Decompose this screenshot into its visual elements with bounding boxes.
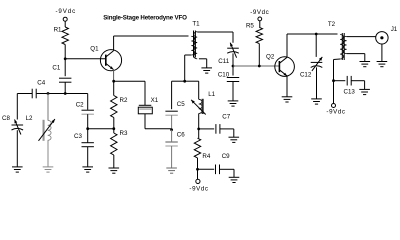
ground (C3) bbox=[82, 167, 93, 172]
trimmer capacitor C8 bbox=[2, 115, 23, 134]
wire bbox=[185, 80, 199, 82]
svg-text:C6: C6 bbox=[177, 132, 185, 139]
svg-text:R3: R3 bbox=[120, 130, 128, 137]
svg-text:C3: C3 bbox=[74, 133, 82, 140]
node C13 junction bbox=[332, 79, 335, 82]
wire bbox=[232, 82, 234, 101]
wire (Q2 emitter) bbox=[286, 76, 288, 97]
ground (C9) bbox=[229, 177, 240, 182]
wire bbox=[351, 80, 364, 82]
wire bbox=[198, 129, 200, 138]
svg-text:-9Vdc: -9Vdc bbox=[55, 8, 76, 15]
wire bbox=[64, 45, 66, 59]
wire (T1 right bottom) bbox=[199, 58, 207, 60]
node C1 bottom junction bbox=[64, 92, 67, 95]
svg-text:J1: J1 bbox=[391, 26, 398, 33]
wire (Q1 emitter) bbox=[113, 70, 115, 82]
wire bbox=[315, 34, 317, 57]
resistor R3 bbox=[111, 130, 128, 155]
ground (C12) bbox=[311, 99, 322, 104]
resistor R4 bbox=[194, 138, 211, 160]
svg-text:R2: R2 bbox=[120, 97, 128, 104]
wire bbox=[197, 169, 199, 179]
wire bbox=[316, 67, 318, 99]
ground (C6) bbox=[166, 168, 177, 173]
wire bbox=[64, 59, 66, 76]
node T1 bottom junction bbox=[183, 80, 186, 83]
power terminal -9Vdc (R1 supply) bbox=[55, 8, 76, 21]
trimmer capacitor C12 bbox=[300, 57, 322, 79]
svg-text:C9: C9 bbox=[222, 153, 230, 160]
node base junction bbox=[64, 57, 67, 60]
wire bbox=[171, 130, 173, 142]
wire (base rail) bbox=[233, 65, 279, 67]
svg-text:R4: R4 bbox=[202, 153, 210, 160]
wire bbox=[65, 93, 88, 95]
svg-text:C13: C13 bbox=[344, 88, 356, 95]
resistor R1 bbox=[54, 27, 69, 45]
wire (Q2 collector) bbox=[286, 34, 288, 57]
ground (C7) bbox=[229, 137, 240, 142]
ground (Q2 emitter) bbox=[282, 97, 293, 102]
power terminal -9Vdc (T2 supply) bbox=[326, 104, 345, 116]
wire bbox=[197, 158, 199, 169]
wire (T2 right top) bbox=[347, 36, 376, 38]
node L1/R4/C7 junction bbox=[197, 127, 200, 130]
svg-text:C4: C4 bbox=[37, 79, 45, 86]
ground (L2) bbox=[43, 167, 54, 172]
node C5/C6 junction bbox=[170, 128, 173, 131]
ground (R3) bbox=[109, 168, 120, 173]
wire bbox=[334, 80, 346, 82]
variable inductor L2 bbox=[26, 115, 55, 141]
capacitor C6 bbox=[165, 132, 185, 147]
svg-text:-9Vdc: -9Vdc bbox=[189, 186, 208, 193]
resistor R5 bbox=[246, 22, 263, 43]
transformer T2 bbox=[328, 21, 347, 60]
wire bbox=[171, 115, 173, 130]
power terminal -9Vdc (R5 supply) bbox=[250, 9, 269, 21]
node C2/C3 junction bbox=[86, 127, 89, 130]
svg-text:C1: C1 bbox=[52, 65, 60, 72]
transistor Q2 bbox=[266, 54, 294, 77]
wire bbox=[144, 114, 146, 129]
capacitor C3 bbox=[74, 133, 94, 147]
capacitor C10 bbox=[218, 71, 239, 81]
wire bbox=[47, 140, 49, 167]
ground (C8) bbox=[12, 167, 23, 172]
svg-text:L2: L2 bbox=[26, 115, 33, 122]
svg-text:C12: C12 bbox=[300, 71, 312, 78]
wire (T2 right bottom) bbox=[347, 53, 365, 55]
svg-text:R1: R1 bbox=[54, 27, 62, 34]
capacitor C5 bbox=[165, 101, 185, 115]
wire bbox=[114, 80, 145, 82]
wire (T1 right top) bbox=[197, 31, 233, 33]
resistor R2 bbox=[111, 96, 128, 118]
wire bbox=[16, 130, 18, 167]
wire bbox=[88, 128, 114, 130]
svg-text:C7: C7 bbox=[222, 114, 230, 121]
ground (T1 secondary) bbox=[201, 68, 212, 73]
wire bbox=[258, 44, 260, 66]
svg-text:R5: R5 bbox=[246, 22, 254, 29]
ground (T2 secondary) bbox=[360, 62, 371, 67]
node L2 top junction bbox=[47, 92, 50, 95]
svg-text:C2: C2 bbox=[76, 102, 84, 109]
capacitor C1 bbox=[52, 65, 71, 83]
capacitor C4 bbox=[32, 79, 46, 98]
svg-text:T1: T1 bbox=[192, 21, 200, 28]
node R2/R3 junction bbox=[112, 127, 115, 130]
trimmer capacitor C11 bbox=[218, 43, 239, 65]
svg-text:-9Vdc: -9Vdc bbox=[326, 108, 345, 115]
capacitor C7 bbox=[216, 114, 231, 134]
node R5 bottom junction bbox=[258, 65, 261, 68]
wire (T2 left bottom) bbox=[334, 58, 341, 61]
wire bbox=[87, 129, 89, 143]
variable inductor L1 bbox=[191, 91, 216, 115]
wire bbox=[220, 168, 235, 170]
svg-text:C10: C10 bbox=[218, 71, 230, 78]
crystal X1 bbox=[138, 97, 158, 114]
wire bbox=[47, 94, 49, 121]
ground (C10) bbox=[228, 101, 239, 106]
wire bbox=[113, 129, 115, 133]
capacitor C13 bbox=[344, 76, 356, 95]
svg-text:L1: L1 bbox=[208, 91, 215, 98]
capacitor C9 bbox=[216, 153, 231, 174]
wire bbox=[220, 128, 234, 130]
wire bbox=[113, 118, 115, 129]
node R4 bottom junction bbox=[196, 168, 199, 171]
wire bbox=[232, 66, 234, 76]
wire bbox=[87, 114, 89, 129]
wire bbox=[232, 53, 234, 66]
node C11/C10 junction bbox=[232, 65, 235, 68]
wire bbox=[65, 58, 106, 60]
capacitor C2 bbox=[76, 102, 94, 115]
svg-text:X1: X1 bbox=[151, 97, 159, 104]
svg-text:Q1: Q1 bbox=[90, 46, 99, 53]
svg-text:Q2: Q2 bbox=[266, 54, 275, 61]
wire (Q1 collector) bbox=[113, 36, 115, 51]
wire bbox=[198, 168, 215, 170]
ground (C13) bbox=[359, 89, 370, 94]
node Q1 emitter junction bbox=[112, 80, 115, 83]
svg-text:C8: C8 bbox=[2, 115, 10, 122]
power terminal -9Vdc (R4 bias) bbox=[189, 179, 208, 192]
transistor Q1 bbox=[90, 46, 121, 71]
node C12 top junction bbox=[315, 33, 318, 36]
svg-text:C11: C11 bbox=[218, 58, 229, 65]
wire bbox=[37, 93, 66, 95]
ground (J1) bbox=[377, 62, 388, 67]
wire bbox=[381, 44, 383, 62]
transformer T1 bbox=[191, 21, 200, 59]
wire bbox=[259, 21, 261, 28]
wire bbox=[16, 94, 18, 120]
svg-text:C5: C5 bbox=[177, 101, 185, 108]
svg-text:T2: T2 bbox=[328, 21, 336, 28]
connector J1 bbox=[376, 26, 398, 44]
wire bbox=[172, 80, 185, 82]
wire bbox=[113, 81, 115, 95]
wire bbox=[198, 114, 200, 129]
wire bbox=[199, 128, 215, 130]
wire bbox=[333, 81, 335, 104]
wire (T1 left bottom) bbox=[185, 54, 192, 56]
wire bbox=[17, 93, 32, 95]
wire bbox=[64, 82, 66, 93]
svg-text:-9Vdc: -9Vdc bbox=[250, 9, 269, 16]
svg-text:Single-Stage Heterodyne VFO: Single-Stage Heterodyne VFO bbox=[103, 14, 187, 21]
wire bbox=[64, 21, 66, 27]
